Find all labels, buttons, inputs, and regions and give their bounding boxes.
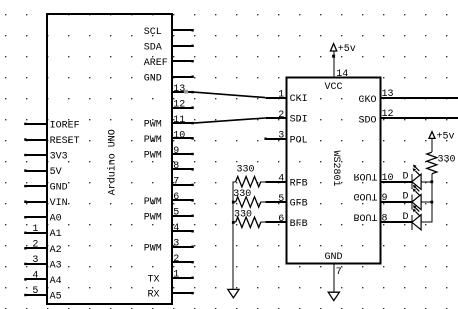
svg-text:GFB: GFB <box>290 199 308 210</box>
svg-text:3: 3 <box>173 239 179 250</box>
svg-text:RFB: RFB <box>290 178 308 189</box>
pin stub Arduino 5V <box>24 169 47 171</box>
junction dot R2 <box>232 201 235 204</box>
svg-text:CKI: CKI <box>290 94 308 105</box>
pin stub Arduino GND <box>24 185 47 187</box>
svg-text:7: 7 <box>336 267 342 278</box>
svg-text:3: 3 <box>32 255 38 266</box>
svg-text:2: 2 <box>32 239 38 250</box>
LED D red <box>412 165 432 190</box>
svg-text:10: 10 <box>173 130 185 141</box>
pin stub Arduino 9 <box>172 153 194 155</box>
svg-text:10: 10 <box>382 173 394 184</box>
LED D blue <box>412 205 432 230</box>
svg-text:D: D <box>403 192 409 203</box>
svg-text:CKO: CKO <box>358 95 376 106</box>
ground symbol at resistor network <box>228 289 239 297</box>
svg-text:4: 4 <box>32 270 38 281</box>
resistor R4 330 (vertical) <box>427 152 437 174</box>
pin stub Arduino 1 <box>172 277 194 279</box>
pin stub Arduino GND <box>172 76 194 78</box>
svg-text:2: 2 <box>173 254 179 265</box>
svg-text:PWM: PWM <box>144 120 162 131</box>
pin stub WS2801 GOUT pin 9 <box>381 201 412 203</box>
svg-text:AREF: AREF <box>144 58 168 69</box>
svg-text:6: 6 <box>173 192 179 203</box>
pin stub Arduino 11 <box>172 122 194 124</box>
svg-text:4: 4 <box>278 174 284 185</box>
pin stub WS2801 ROUT pin 10 <box>381 181 412 183</box>
resistor R1 330 <box>233 177 265 187</box>
svg-text:13: 13 <box>382 89 394 100</box>
pin stub WS2801 VCC pin 14 <box>333 51 335 77</box>
svg-text:PWM: PWM <box>144 212 162 223</box>
svg-text:SCL: SCL <box>144 27 162 38</box>
junction dot bus ROUT row <box>430 180 433 183</box>
svg-text:GOUT: GOUT <box>353 190 377 201</box>
svg-text:5: 5 <box>173 208 179 219</box>
IC U1 Arduino UNO body <box>47 14 172 304</box>
svg-text:+5v: +5v <box>338 44 356 55</box>
svg-text:2: 2 <box>278 110 284 121</box>
svg-text:GND: GND <box>50 183 68 194</box>
pin stub Arduino A1 <box>24 232 47 234</box>
svg-text:SDI: SDI <box>290 115 308 126</box>
svg-text:+5v: +5v <box>437 131 455 142</box>
pin stub Arduino 4 <box>172 230 194 232</box>
pin stub WS2801 RFB pin 4 <box>265 181 286 183</box>
svg-text:PWM: PWM <box>144 135 162 146</box>
svg-text:BFB: BFB <box>290 219 308 230</box>
svg-text:IOREF: IOREF <box>50 120 80 131</box>
svg-text:9: 9 <box>382 193 388 204</box>
pin stub Arduino 3 <box>172 246 194 248</box>
junction dot bus GOUT row <box>430 201 433 204</box>
svg-text:13: 13 <box>173 84 185 95</box>
pin stub WS2801 POL pin 3 <box>264 138 286 140</box>
svg-text:A4: A4 <box>50 276 62 287</box>
resistor R2 330 <box>233 197 265 207</box>
ground symbol at WS2801 GND <box>328 292 339 300</box>
svg-text:BOUT: BOUT <box>353 211 377 222</box>
pin stub WS2801 SDO pin 12 <box>381 117 458 119</box>
pin stub Arduino 13 <box>172 91 194 93</box>
pin stub Arduino RX <box>172 292 194 294</box>
svg-text:330: 330 <box>237 164 255 175</box>
LED D green <box>412 185 432 210</box>
wire +5v to resistor R4 <box>431 138 433 152</box>
svg-text:5: 5 <box>32 286 38 297</box>
svg-text:GND: GND <box>144 73 162 84</box>
svg-text:A3: A3 <box>50 260 62 271</box>
pin stub WS2801 CKI pin 1 <box>265 97 286 99</box>
pin stub Arduino SCL <box>172 29 194 31</box>
svg-text:5: 5 <box>278 194 284 205</box>
svg-text:A2: A2 <box>50 245 62 256</box>
svg-text:9: 9 <box>173 146 179 157</box>
pin stub Arduino 12 <box>172 106 194 108</box>
svg-text:D: D <box>403 212 409 223</box>
pin stub Arduino A4 <box>24 278 47 280</box>
pin stub WS2801 BOUT pin 8 <box>381 221 412 223</box>
svg-text:A0: A0 <box>50 214 62 225</box>
pin stub Arduino RESET <box>24 138 47 140</box>
wire Arduino pin13 to WS2801 CKI <box>194 92 266 98</box>
svg-text:WS2801: WS2801 <box>330 151 341 187</box>
junction dot on VCC wire <box>332 55 335 58</box>
pin stub WS2801 SDI pin 2 <box>265 117 286 119</box>
svg-text:ROUT: ROUT <box>353 170 377 181</box>
pin stub Arduino 2 <box>172 261 194 263</box>
wire Arduino pin11 to WS2801 SDI <box>194 118 266 123</box>
svg-text:RX: RX <box>148 290 160 301</box>
pin stub Arduino SDA <box>172 45 194 47</box>
svg-text:VCC: VCC <box>324 82 342 93</box>
pin stub WS2801 BFB pin 6 <box>265 221 286 223</box>
svg-text:3V3: 3V3 <box>50 152 68 163</box>
pin stub WS2801 GFB pin 5 <box>265 201 286 203</box>
svg-text:TX: TX <box>148 274 160 285</box>
svg-text:330: 330 <box>234 210 252 221</box>
svg-text:PWM: PWM <box>144 151 162 162</box>
pin stub Arduino 8 <box>172 168 194 170</box>
svg-text:330: 330 <box>233 189 251 200</box>
pin stub Arduino AREF <box>172 60 194 62</box>
IC U2 WS2801 body <box>287 78 381 264</box>
pin stub Arduino VIN <box>24 201 47 203</box>
svg-text:12: 12 <box>382 109 394 120</box>
wire resistor commons to ground <box>232 182 234 290</box>
power symbol +5v at LED supply <box>429 131 455 142</box>
power symbol +5v at VCC <box>330 44 355 55</box>
svg-text:8: 8 <box>173 161 179 172</box>
svg-text:3: 3 <box>278 131 284 142</box>
pin stub Arduino 7 <box>172 184 194 186</box>
svg-text:14: 14 <box>336 69 348 80</box>
svg-text:8: 8 <box>382 214 388 225</box>
svg-text:RESET: RESET <box>50 136 80 147</box>
svg-text:A1: A1 <box>50 229 62 240</box>
svg-text:6: 6 <box>278 214 284 225</box>
pin stub Arduino A2 <box>24 247 47 249</box>
svg-text:VIN: VIN <box>50 198 68 209</box>
resistor R3 330 <box>233 217 265 227</box>
pin stub WS2801 GND pin 7 <box>333 263 335 292</box>
pin stub Arduino A3 <box>24 263 47 265</box>
svg-text:11: 11 <box>173 115 185 126</box>
pin stub WS2801 CKO pin 13 <box>381 97 458 99</box>
svg-text:PWM: PWM <box>144 243 162 254</box>
junction dot R3 <box>232 221 235 224</box>
svg-text:330: 330 <box>438 155 456 166</box>
svg-text:1: 1 <box>173 270 179 281</box>
wire LED anode bus <box>431 174 433 223</box>
junction gray dot on pin13 <box>184 90 188 94</box>
pin stub Arduino A5 <box>24 294 47 296</box>
svg-text:5V: 5V <box>50 167 62 178</box>
svg-text:7: 7 <box>173 177 179 188</box>
svg-text:PWM: PWM <box>144 197 162 208</box>
pin stub Arduino A0 <box>24 216 47 218</box>
pin stub Arduino 6 <box>172 199 194 201</box>
svg-text:POL: POL <box>290 135 308 146</box>
svg-text:D: D <box>403 171 409 182</box>
svg-text:4: 4 <box>173 223 179 234</box>
pin stub Arduino 5 <box>172 215 194 217</box>
svg-text:SDO: SDO <box>358 115 376 126</box>
svg-text:A5: A5 <box>50 292 62 303</box>
svg-text:GND: GND <box>324 252 342 263</box>
pin stub Arduino 3V3 <box>24 154 47 156</box>
svg-text:Arduino UNO: Arduino UNO <box>107 129 119 195</box>
pin stub Arduino IOREF <box>24 123 47 125</box>
svg-text:1: 1 <box>32 224 38 235</box>
pin stub Arduino 10 <box>172 137 194 139</box>
svg-text:12: 12 <box>173 99 185 110</box>
svg-text:1: 1 <box>278 89 284 100</box>
svg-text:SDA: SDA <box>144 42 162 53</box>
